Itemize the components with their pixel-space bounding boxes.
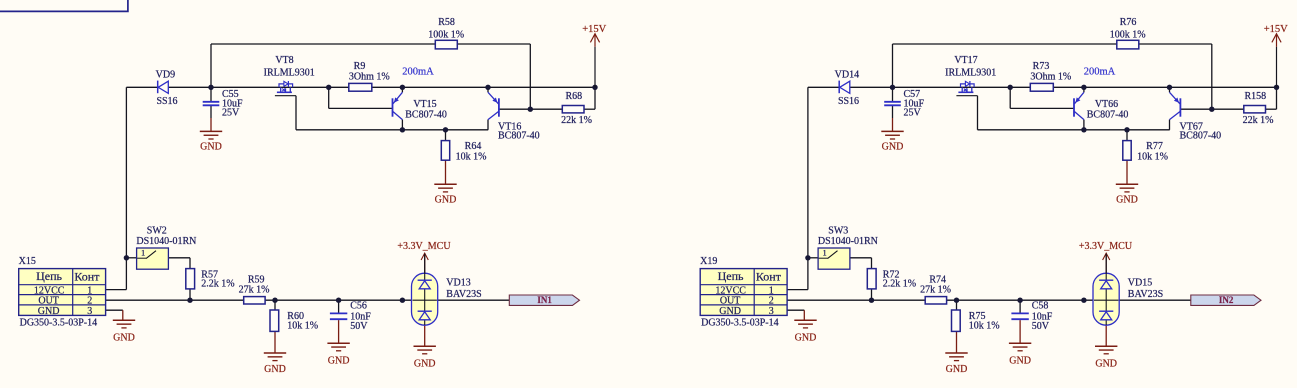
svg-text:GND: GND [882,142,904,153]
svg-text:X19: X19 [700,256,717,267]
svg-text:BAV23S: BAV23S [446,289,481,300]
svg-text:IN2: IN2 [1219,295,1234,305]
svg-text:VD14: VD14 [835,70,859,81]
svg-text:R76: R76 [1120,17,1137,28]
svg-text:GND: GND [414,358,436,369]
svg-text:3: 3 [769,306,774,317]
svg-text:DS1040-01RN: DS1040-01RN [818,236,878,247]
svg-text:GND: GND [795,332,817,343]
svg-text:50V: 50V [350,321,368,332]
svg-text:R59: R59 [248,274,265,285]
svg-text:100k 1%: 100k 1% [428,29,464,40]
svg-text:GND: GND [946,364,968,375]
svg-text:Конт: Конт [74,269,100,283]
svg-text:Цепь: Цепь [718,269,744,283]
svg-text:Цепь: Цепь [36,269,62,283]
svg-text:BC807-40: BC807-40 [1087,110,1129,121]
svg-text:1: 1 [141,249,145,258]
svg-text:25V: 25V [222,108,240,119]
svg-text:27k 1%: 27k 1% [239,285,270,296]
svg-text:10k 1%: 10k 1% [1137,151,1168,162]
svg-text:GND: GND [1095,358,1117,369]
svg-text:R58: R58 [438,17,455,28]
svg-text:200mA: 200mA [402,66,434,77]
svg-text:GND: GND [1116,194,1138,205]
svg-text:DS1040-01RN: DS1040-01RN [136,236,196,247]
svg-text:C58: C58 [1032,301,1049,312]
svg-text:IRLML9301: IRLML9301 [945,67,996,78]
svg-text:VT15: VT15 [413,99,436,110]
svg-text:1: 1 [823,249,827,258]
svg-text:VD9: VD9 [156,70,175,81]
svg-text:BC807-40: BC807-40 [1180,131,1222,142]
svg-text:SS16: SS16 [838,96,859,107]
svg-text:R9: R9 [354,61,366,72]
svg-text:R68: R68 [565,91,582,102]
svg-text:IN1: IN1 [537,295,552,305]
svg-text:DG350-3.5-03P-14: DG350-3.5-03P-14 [20,318,98,329]
svg-text:VT17: VT17 [954,55,977,66]
svg-text:R73: R73 [1033,61,1050,72]
svg-text:IRLML9301: IRLML9301 [264,67,315,78]
svg-text:GND: GND [264,364,286,375]
svg-text:+15V: +15V [582,24,606,35]
svg-text:2.2k 1%: 2.2k 1% [883,279,916,290]
svg-text:3: 3 [87,306,92,317]
svg-text:X15: X15 [19,256,36,267]
svg-text:VD13: VD13 [446,278,470,289]
svg-text:Конт: Конт [756,269,782,283]
svg-text:VT8: VT8 [275,55,293,66]
svg-text:VD15: VD15 [1128,278,1152,289]
svg-text:50V: 50V [1032,321,1050,332]
svg-text:+3.3V_MCU: +3.3V_MCU [1079,241,1133,252]
svg-text:GND: GND [200,142,222,153]
svg-text:10k 1%: 10k 1% [456,151,487,162]
svg-text:GND: GND [38,306,60,317]
svg-text:R74: R74 [929,274,946,285]
svg-text:GND: GND [113,332,135,343]
svg-text:3Ohm 1%: 3Ohm 1% [349,72,390,83]
svg-text:200mA: 200mA [1084,66,1116,77]
svg-text:BC807-40: BC807-40 [498,131,540,142]
svg-text:10k 1%: 10k 1% [287,321,318,332]
svg-text:GND: GND [719,306,741,317]
svg-text:+15V: +15V [1264,24,1288,35]
svg-text:2.2k 1%: 2.2k 1% [201,279,234,290]
svg-text:R158: R158 [1244,91,1266,102]
svg-text:GND: GND [328,356,350,367]
svg-text:BAV23S: BAV23S [1128,289,1163,300]
svg-text:C56: C56 [350,301,367,312]
svg-text:DG350-3.5-03P-14: DG350-3.5-03P-14 [701,318,779,329]
svg-text:3Ohm 1%: 3Ohm 1% [1030,72,1071,83]
svg-text:VT66: VT66 [1095,99,1118,110]
svg-text:100k 1%: 100k 1% [1110,29,1146,40]
svg-text:27k 1%: 27k 1% [920,285,951,296]
svg-text:GND: GND [1009,356,1031,367]
svg-text:22k 1%: 22k 1% [1243,115,1274,126]
svg-text:SS16: SS16 [156,96,177,107]
svg-text:+3.3V_MCU: +3.3V_MCU [397,241,451,252]
svg-text:25V: 25V [904,108,922,119]
svg-text:GND: GND [435,194,457,205]
svg-text:10k 1%: 10k 1% [969,321,1000,332]
svg-text:22k 1%: 22k 1% [561,115,592,126]
svg-text:BC807-40: BC807-40 [405,110,447,121]
